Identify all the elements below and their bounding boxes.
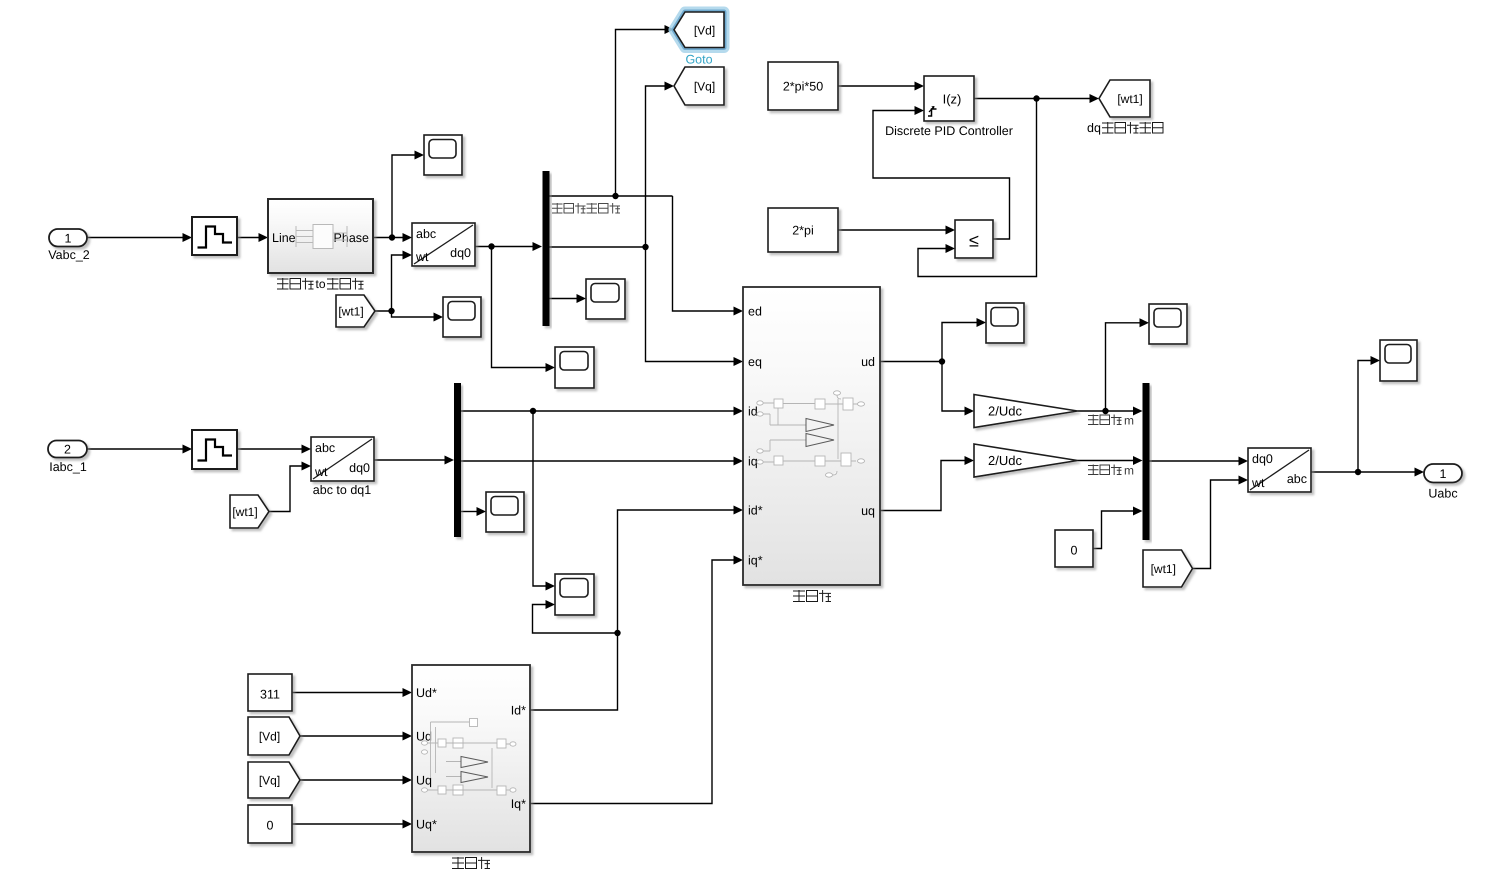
svg-text:Iq*: Iq* [511,797,526,811]
wire Iq* output up to iq* port [530,556,743,804]
svg-text:311: 311 [260,688,280,702]
wire demux2 out1 to id port with branch to scope S6 input1 [461,407,743,591]
svg-text:wt: wt [1251,476,1265,490]
svg-text:≤: ≤ [969,231,979,251]
label 电压环 [452,857,490,869]
svg-text:abc: abc [315,441,335,455]
wire Iabc_1 to rate-transition 2 [87,445,192,454]
svg-text:0: 0 [1071,544,1078,558]
rate transition block 2 [192,430,237,469]
label 线电压to相电压 [277,277,364,291]
svg-text:Uq: Uq [416,774,432,788]
scope S2 [443,297,481,337]
svg-text:Ud*: Ud* [416,686,437,700]
wire From wt1 tag 3 up to wt port of dq0-abc [1193,476,1249,569]
svg-text:2/Udc: 2/Udc [988,404,1022,419]
wire uq output up to gain2 [880,456,974,511]
wire constant 0 to Uq* port [292,820,412,829]
constant 0 (left) [248,805,292,843]
wire constant 2*pi*50 to PID input [838,82,924,91]
scope S5 [486,492,524,532]
constant 311 [248,674,292,711]
demux2 bar [454,383,461,537]
rate transition block 1 [192,217,237,255]
wire abc-dq0 output to demux1 with branch down to scope S4 [475,242,555,372]
label 电流环 [793,590,831,602]
label Goto [685,53,712,67]
transform block abc to dq1 [311,437,374,481]
svg-text:Uq*: Uq* [416,818,437,832]
svg-text:Vabc_2: Vabc_2 [48,248,90,262]
gain 2/Udc upper [974,395,1078,428]
wire demux1 out3 to scope S3 [550,294,587,303]
wire demux1 out2 to Goto Vq and eq port [550,82,744,367]
svg-text:uq: uq [861,504,875,518]
svg-text:wt: wt [415,250,429,264]
wire constant 2*pi to relational operator [838,226,955,235]
svg-text:[wt1]: [wt1] [338,305,363,319]
label abc to dq1 [313,483,371,497]
wire From wt1 tag 2 to wt port [269,462,311,512]
wire PID output to Goto wt1 with loop branch down [918,94,1099,277]
svg-text:Uabc: Uabc [1428,487,1457,501]
svg-text:Id*: Id* [511,704,526,718]
Discrete PID Controller block [924,76,974,121]
From tag Vd [248,717,300,755]
Goto tag Vq [674,67,724,105]
constant 2*pi [768,208,838,252]
svg-text:I(z): I(z) [943,92,962,107]
relational operator <= [955,220,993,258]
From tag Vq [248,762,300,798]
demux1 bar [543,171,550,326]
transform block abc,wt to dq0 [412,223,475,266]
wire dq0-abc output to outport Uabc with branch to scope S9 [1311,356,1424,477]
svg-text:abc to dq1: abc to dq1 [313,483,371,497]
svg-text:dq: dq [1087,121,1101,135]
svg-text:m: m [1124,414,1134,428]
inport 2 Iabc_1 [48,441,87,475]
wire demux2 out3 to scope S5 [461,507,486,516]
wire Id* output up to id* port with junction [530,506,743,711]
subsystem 线电压to相电压 (Line to Phase) [268,199,373,273]
wire constant 311 to Ud* port [292,688,412,697]
gain 2/Udc lower [974,444,1078,477]
scope S4 [555,347,594,388]
label 前馈电压信号 [552,203,620,214]
svg-text:wt: wt [314,465,328,479]
svg-text:[Vq]: [Vq] [259,774,280,788]
wire From wt1 tag to wt port and scope S2 [375,251,443,322]
wire gain2 output to mux3 in2 [1078,456,1143,465]
inport 1 Vabc_2 [48,229,90,262]
svg-text:[wt1]: [wt1] [232,505,257,519]
subsystem 电流环 current loop [743,287,880,585]
wire demux2 out2 to iq port [461,457,743,466]
svg-text:dq0: dq0 [450,246,471,260]
wire rate-transition 2 to abc port [237,445,311,454]
outport 1 Uabc [1424,464,1462,501]
label dq旋转角频率 [1087,121,1163,135]
svg-text:dq0: dq0 [349,461,370,475]
scope S7 [986,303,1024,343]
svg-text:iq*: iq* [748,554,763,568]
Goto tag wt1 [1099,80,1150,117]
wire abc-to-dq1 output to demux2 [374,456,454,465]
svg-text:dq0: dq0 [1252,452,1273,466]
svg-text:[Vq]: [Vq] [694,80,715,94]
mux3 bar [1143,383,1150,540]
svg-text:1: 1 [65,231,72,245]
wire demux1 out1 to Goto Vd and ed port [550,25,744,316]
svg-text:1: 1 [1440,467,1447,481]
wire Vabc_2 to rate-transition [87,233,192,242]
scope S6 (two inputs) [555,574,594,615]
svg-text:2: 2 [64,443,71,457]
svg-text:abc: abc [1287,472,1307,486]
wire Phase output to abc input with branch to scope S1 [373,151,424,243]
svg-text:eq: eq [748,355,762,369]
svg-text:Line: Line [272,231,296,245]
wire ud output to scope S7 and gain 2/Udc [880,318,986,416]
From tag wt1 (third) [1143,550,1193,587]
svg-text:ed: ed [748,305,762,319]
scope S9 [1380,340,1417,381]
svg-text:id: id [748,405,758,419]
svg-text:[wt1]: [wt1] [1151,562,1176,576]
scope S3 [586,279,625,319]
svg-text:to: to [315,277,325,291]
svg-text:ud: ud [861,355,875,369]
wire gain1 output to mux3 in1 with branch to scope S8 [1078,318,1150,415]
svg-text:2/Udc: 2/Udc [988,453,1022,468]
label 调制比m (lower) [1088,464,1134,478]
svg-text:[wt1]: [wt1] [1117,92,1142,106]
svg-text:id*: id* [748,504,763,518]
svg-text:abc: abc [416,227,436,241]
constant 2*pi*50 [768,62,838,110]
wire mux3 output to dq0 port [1150,457,1249,466]
transform block dq0,wt to abc [1248,448,1311,492]
svg-text:[Vd]: [Vd] [694,23,715,37]
svg-text:0: 0 [267,819,274,833]
svg-text:2*pi: 2*pi [792,224,814,238]
constant 0 (right) [1055,530,1093,567]
subsystem 电压环 voltage loop [412,665,530,852]
From tag wt1 (upper) [336,295,375,327]
scope S8 [1149,304,1187,344]
scope S1 [424,135,462,175]
svg-text:m: m [1124,464,1134,478]
Goto tag Vd (highlighted) [674,12,724,48]
svg-text:2*pi*50: 2*pi*50 [783,80,823,94]
svg-text:iq: iq [748,455,758,469]
wire From Vq tag to Uq port [300,776,412,785]
svg-text:Iabc_1: Iabc_1 [49,460,87,474]
svg-text:[Vd]: [Vd] [259,730,280,744]
svg-text:Goto: Goto [685,53,712,67]
From tag wt1 (second) [230,495,269,528]
wire From Vd tag to Ud port [300,732,412,741]
wire rate-transition to Line input [237,233,268,242]
wire relational operator output loop to PID reset input [873,106,1010,239]
svg-text:Discrete PID Controller: Discrete PID Controller [885,124,1013,138]
label 调制比m (upper) [1088,414,1134,428]
label Discrete PID Controller [885,124,1013,138]
wire constant 0 to mux3 in3 [1093,507,1143,549]
